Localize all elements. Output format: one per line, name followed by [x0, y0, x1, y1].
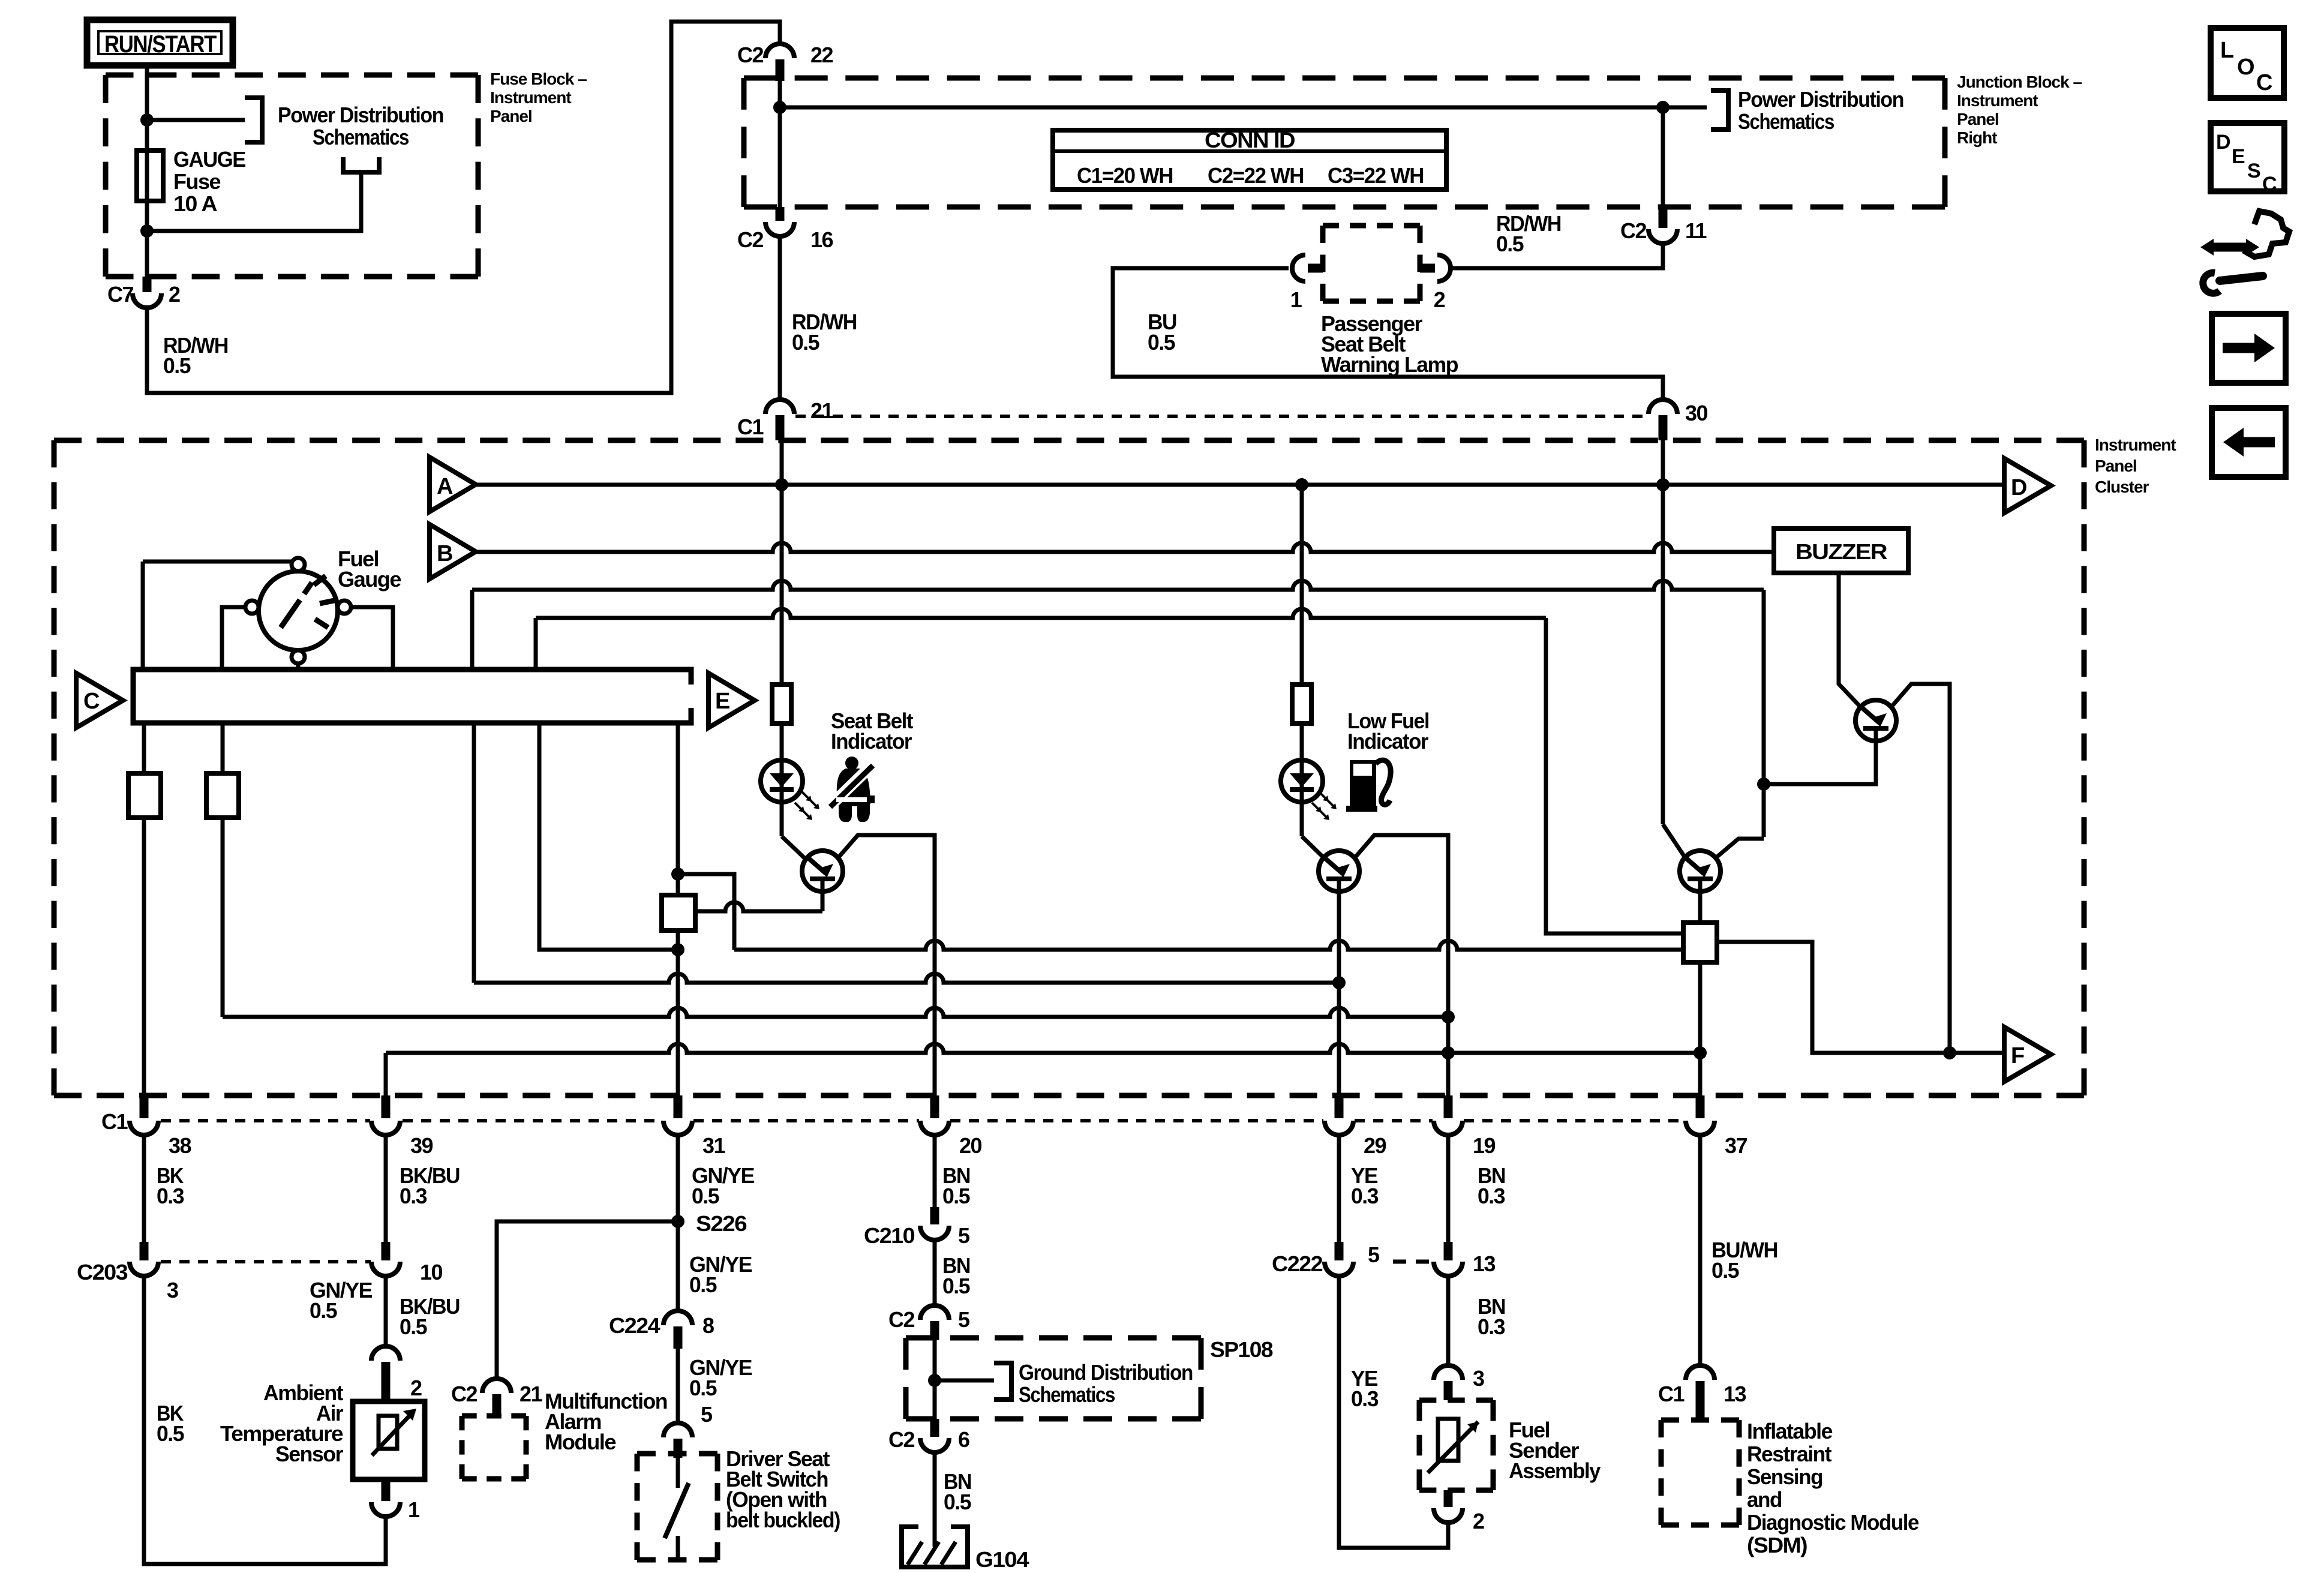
transistor seat belt driver [802, 851, 843, 891]
svg-text:Instrument: Instrument [1957, 91, 2038, 110]
lamp connector pin 2 [1420, 255, 1451, 312]
wire bus tap to D2 [539, 723, 678, 950]
svg-text:C3=22 WH: C3=22 WH [1328, 163, 1424, 188]
chime transistor collector [1716, 839, 1764, 858]
svg-text:GAUGE: GAUGE [173, 147, 245, 172]
splice SP108 dashed box [906, 1335, 1201, 1341]
svg-text:31: 31 [702, 1133, 726, 1158]
svg-text:10: 10 [420, 1260, 443, 1284]
connector C203 pin 3 [77, 1242, 178, 1302]
svg-text:29: 29 [1364, 1133, 1386, 1158]
label RD/WH 0.5 (lamp) [1496, 211, 1561, 256]
svg-text:C1: C1 [737, 415, 764, 439]
svg-text:Schematics: Schematics [1738, 109, 1834, 134]
resistor seat belt indicator [772, 685, 791, 724]
transistor collector to C1-20 [838, 835, 935, 1095]
label BN 0.5 (G104) [944, 1469, 971, 1514]
svg-text:1: 1 [408, 1497, 420, 1522]
label BN 0.3 (13) [1478, 1294, 1505, 1339]
splice box 3 [662, 895, 695, 930]
wire SDM splice to F line [1717, 942, 2004, 1053]
svg-text:21: 21 [810, 398, 834, 423]
label Ambient Air Temperature Sensor [220, 1380, 343, 1466]
svg-text:Diagnostic Module: Diagnostic Module [1747, 1510, 1918, 1535]
wire GN/YE from C1-31 to switch [676, 1135, 680, 1311]
svg-text:3: 3 [1473, 1366, 1484, 1391]
transistor chime driver [1680, 851, 1721, 891]
svg-text:C: C [83, 689, 100, 714]
wire BN 0.3 to sender pin 3 [1446, 1276, 1451, 1365]
wire BK/BU from C1-39 to connector 10 [384, 1135, 388, 1242]
splice S226 [671, 1215, 684, 1228]
svg-text:Indicator: Indicator [1347, 729, 1428, 754]
wire RD/WH 0.5 from C2-16 to C1-21 [737, 207, 833, 252]
power feed box RUN/START [87, 20, 233, 65]
junction dot low fuel emitter [1332, 976, 1346, 989]
svg-text:0.5: 0.5 [163, 353, 191, 378]
label Junction Block - Instrument Panel Right [1957, 73, 2082, 147]
wire resistor to LED (low fuel) [1300, 724, 1304, 836]
label GN/YE 0.5 (31) [692, 1163, 754, 1208]
label RD/WH 0.5 (left) [163, 333, 228, 378]
svg-text:C222: C222 [1272, 1251, 1323, 1276]
svg-text:0.5: 0.5 [692, 1184, 719, 1208]
label BN 0.5 (20) [942, 1163, 970, 1208]
wire base diagonal [1663, 824, 1685, 857]
svg-text:D: D [2011, 475, 2026, 500]
svg-text:19: 19 [1473, 1133, 1496, 1158]
svg-text:5: 5 [958, 1307, 970, 1332]
svg-text:L: L [2220, 38, 2234, 63]
label BU 0.5 [1148, 310, 1176, 355]
svg-text:0.5: 0.5 [1148, 330, 1175, 355]
svg-text:5: 5 [1368, 1242, 1380, 1267]
gauge bus bar C-E [133, 670, 691, 723]
wire 30 rail to chime transistor base [1661, 440, 1665, 824]
fuse block dashed box [106, 73, 478, 78]
svg-text:Gauge: Gauge [338, 567, 401, 592]
transistor emitter to C1-29 [1337, 891, 1341, 1095]
connector C1 pin 13 (SDM) [1658, 1365, 1746, 1420]
icon arrow right box [2212, 314, 2286, 383]
label Fuel Sender Assembly [1509, 1418, 1601, 1483]
svg-text:0.5: 0.5 [942, 1274, 970, 1298]
wire LED to transistor (seat belt) [782, 836, 807, 860]
svg-text:B: B [437, 541, 452, 566]
wire bus to internal box 1 [142, 723, 146, 773]
wire B rail to buzzer [476, 543, 1774, 552]
label GAUGE Fuse 10 A [173, 147, 245, 216]
svg-text:O: O [2237, 55, 2254, 80]
label BN 0.5 (C210) [942, 1253, 970, 1298]
svg-text:C1=20 WH: C1=20 WH [1077, 163, 1173, 188]
label Low Fuel Indicator [1347, 709, 1429, 754]
lamp connector pin 1 [1290, 255, 1323, 312]
dotted line C203 [161, 1260, 371, 1263]
svg-text:Fuse Block –: Fuse Block – [490, 70, 587, 88]
svg-text:Cluster: Cluster [2095, 478, 2149, 496]
svg-text:(SDM): (SDM) [1747, 1533, 1807, 1557]
svg-text:Panel: Panel [2095, 457, 2137, 475]
svg-text:Assembly: Assembly [1509, 1458, 1601, 1483]
connector C203 pin 10 [371, 1242, 443, 1284]
buzzer wire to transistor [1839, 573, 1860, 707]
svg-text:Power Distribution: Power Distribution [278, 103, 443, 127]
label YE 0.3 (sender) [1351, 1366, 1378, 1411]
svg-text:Panel: Panel [490, 107, 532, 125]
sensor connector pin 2 [371, 1346, 422, 1401]
label BU/WH 0.5 (37) [1712, 1238, 1777, 1283]
svg-text:3: 3 [167, 1278, 178, 1302]
svg-text:Ground Distribution: Ground Distribution [1019, 1360, 1193, 1385]
wire bus tap to low fuel emitter [472, 723, 476, 983]
junction dot F line [1943, 1046, 1956, 1059]
svg-text:D: D [2216, 131, 2230, 154]
wire BN from C1-19 to connector 13 [1446, 1135, 1451, 1242]
svg-text:0.5: 0.5 [792, 330, 819, 355]
svg-text:2: 2 [1473, 1509, 1484, 1533]
svg-text:C2: C2 [888, 1427, 914, 1452]
resistor low fuel indicator [1292, 685, 1311, 724]
connector C1 pin 39 [371, 1095, 433, 1158]
passenger seat belt warning lamp box [1323, 223, 1420, 229]
connector C2 pin 6 [888, 1419, 969, 1452]
ground G104 [902, 1527, 1029, 1572]
svg-text:C1: C1 [101, 1109, 128, 1134]
connector C224 pin 8 [609, 1311, 714, 1349]
svg-text:S: S [2247, 160, 2260, 182]
junction dot D2 [671, 943, 684, 956]
seat belt indicator wire from C1-21 [780, 440, 784, 685]
svg-text:belt buckled): belt buckled) [726, 1508, 840, 1532]
SDM splice box [1683, 923, 1717, 962]
label Driver Seat Belt Switch [726, 1446, 840, 1532]
connector C2 pin 21 [451, 1379, 543, 1416]
signal line to SDM splice box [734, 941, 1683, 950]
svg-text:Sensor: Sensor [275, 1442, 343, 1466]
svg-text:6: 6 [958, 1427, 969, 1452]
svg-text:0.3: 0.3 [157, 1184, 184, 1208]
svg-text:C: C [2262, 173, 2277, 196]
internal element box 2 [206, 773, 239, 818]
label BK 0.3 [157, 1163, 184, 1208]
triangle connector F [2004, 1027, 2051, 1082]
wire BK 0.5 sensor to C203 [144, 1276, 386, 1564]
wire resistor to LED [780, 724, 784, 836]
connector C222 pin 5 [1272, 1242, 1380, 1276]
svg-text:38: 38 [169, 1133, 191, 1158]
triangle connector E [708, 673, 755, 728]
power distribution schematics bracket (fuse block) [245, 98, 262, 142]
label BK/BU 0.5 [400, 1294, 460, 1339]
dashed line C222 [1393, 1260, 1433, 1264]
svg-text:11: 11 [1685, 218, 1707, 243]
svg-text:39: 39 [410, 1133, 433, 1158]
wire BU 0.5 lamp to connector 30 [1113, 268, 1663, 400]
junction dot on fuel line at 37 [1694, 1046, 1707, 1059]
transistor emitter to splice box [821, 891, 825, 911]
svg-text:S226: S226 [696, 1211, 747, 1236]
fuel gauge [245, 558, 351, 664]
multifunction alarm module box [462, 1413, 526, 1419]
icon arrow left box [2212, 408, 2286, 477]
svg-text:0.5: 0.5 [1712, 1258, 1739, 1283]
svg-text:13: 13 [1724, 1382, 1746, 1406]
switch symbol (driver seat belt) [665, 1458, 689, 1560]
thermistor symbol (ambient sensor) [372, 1409, 416, 1455]
svg-text:0.5: 0.5 [1496, 232, 1524, 256]
wire E-bus tap to buzzer driver collector [472, 581, 1764, 590]
svg-text:5: 5 [701, 1402, 713, 1427]
connector C210 pin 5 [864, 1207, 970, 1248]
svg-text:C2: C2 [737, 227, 763, 252]
power distribution schematics bracket (junction block) [1711, 91, 1728, 130]
buzzer BUZZER [1774, 529, 1908, 573]
svg-text:2: 2 [410, 1376, 422, 1400]
svg-text:Instrument: Instrument [2095, 436, 2176, 454]
cluster connector dotted line C1 bottom [101, 1109, 1685, 1134]
wire C2-22 to C2-16 inside junction block [778, 81, 782, 207]
LED low fuel indicator [1281, 760, 1323, 802]
svg-text:Module: Module [545, 1430, 615, 1454]
label Seat Belt Indicator [831, 709, 913, 754]
svg-text:Schematics: Schematics [1019, 1382, 1115, 1407]
cluster connector dotted line C1-21 to 30 [795, 415, 1647, 418]
buzzer transistor emitter [1764, 741, 1876, 784]
svg-text:5: 5 [958, 1223, 970, 1248]
connector C1 pin 20 [920, 1095, 982, 1158]
svg-text:13: 13 [1473, 1251, 1496, 1276]
svg-text:Schematics: Schematics [313, 125, 409, 149]
label GN/YE 0.5 (C224) [689, 1252, 752, 1297]
svg-text:C7: C7 [107, 282, 133, 307]
svg-text:Panel: Panel [1957, 110, 1999, 128]
svg-text:C2: C2 [1620, 218, 1646, 243]
wire LED to transistor (low fuel) [1302, 836, 1325, 858]
connector C1 pin 38 [130, 1095, 191, 1158]
svg-text:0.5: 0.5 [157, 1421, 184, 1446]
triangle connector A [430, 457, 476, 512]
svg-text:Inflatable: Inflatable [1747, 1419, 1832, 1443]
connector C2 pin 5 [888, 1305, 970, 1340]
junction dot fuel signal [1442, 1046, 1455, 1059]
svg-text:E: E [715, 689, 729, 714]
junction dot buzzer emitter [1757, 778, 1770, 791]
wire to power distribution bracket [147, 118, 245, 122]
svg-text:G104: G104 [975, 1547, 1029, 1572]
svg-text:16: 16 [810, 227, 833, 252]
svg-text:and: and [1747, 1487, 1782, 1512]
svg-text:Sensing: Sensing [1747, 1464, 1822, 1489]
svg-text:0.3: 0.3 [1351, 1386, 1378, 1411]
fuel data line to C1-39 and F [386, 1044, 1700, 1053]
label Instrument Panel Cluster [2095, 436, 2176, 496]
label GN/YE 0.5 (switch) [689, 1355, 752, 1400]
svg-text:A: A [437, 474, 453, 499]
icon DESC box [2211, 123, 2284, 196]
connector C7 pin 2 [107, 277, 180, 308]
svg-text:C2: C2 [737, 43, 763, 67]
svg-text:C224: C224 [609, 1313, 660, 1338]
svg-text:F: F [2011, 1043, 2024, 1068]
junction dot on feed rail (right) [1656, 101, 1670, 114]
svg-text:C: C [2256, 70, 2272, 95]
junction dot sender feed [1442, 1010, 1455, 1023]
label BN 0.3 (19) [1478, 1163, 1505, 1208]
triangle connector C [76, 673, 123, 728]
svg-text:10 A: 10 A [173, 191, 218, 216]
svg-text:Right: Right [1957, 128, 1997, 147]
transistor collector to C1-19 [1355, 835, 1448, 1095]
inflatable restraint SDM box [1661, 1418, 1739, 1423]
svg-text:Warning Lamp: Warning Lamp [1321, 352, 1458, 377]
wire BK/BU 0.5 to sensor [384, 1276, 388, 1346]
svg-text:C210: C210 [864, 1223, 915, 1248]
wire RD/WH 0.5 from C7 to junction block [147, 22, 780, 393]
triangle connector D [2004, 458, 2051, 513]
sender connector pin 2 [1434, 1490, 1484, 1533]
icon seat belt person [830, 757, 875, 822]
ground distribution schematics bracket [994, 1363, 1011, 1400]
label BK 0.5 [157, 1401, 184, 1446]
connector C1 pin 21 [737, 398, 834, 440]
sensor connector pin 1 [371, 1479, 420, 1522]
svg-text:0.5: 0.5 [400, 1314, 427, 1339]
connector C1 pin 37 [1686, 1095, 1747, 1158]
wire D1 to signal line [678, 874, 734, 950]
junction dots on A rail [775, 478, 788, 491]
LED arrows seat belt [802, 792, 817, 807]
svg-text:Fuse: Fuse [173, 169, 220, 194]
svg-text:21: 21 [520, 1382, 543, 1406]
chime transistor emitter to splice [1698, 891, 1703, 923]
fuel sender assembly box [1419, 1398, 1493, 1403]
fork symbol to other schematics [343, 157, 379, 172]
junction dot on feed rail (left) [773, 101, 786, 114]
svg-text:2: 2 [1434, 287, 1445, 312]
wire S226 to alarm module [497, 1221, 678, 1379]
icon LOC box [2211, 28, 2284, 98]
wire BN from C1-20 to C210 [933, 1135, 937, 1207]
svg-text:22: 22 [810, 43, 833, 67]
svg-text:0.3: 0.3 [1478, 1184, 1505, 1208]
wire RD/WH 0.5 from C2-11 to warning lamp [1452, 244, 1663, 268]
connector C2 pin 22 [737, 43, 833, 81]
wire to ground distribution bracket [935, 1379, 994, 1383]
label Passenger Seat Belt Warning Lamp [1321, 311, 1458, 377]
connector 30 [1649, 400, 1708, 440]
svg-text:Instrument: Instrument [490, 88, 571, 107]
svg-text:0.5: 0.5 [944, 1490, 971, 1514]
svg-text:37: 37 [1725, 1133, 1747, 1158]
wire splice to C1-37 [1698, 962, 1703, 1095]
label Inflatable Restraint Sensing and Diagnostic Module (SDM) [1747, 1419, 1918, 1557]
junction dot SP108 [928, 1374, 941, 1387]
svg-text:Junction Block –: Junction Block – [1957, 73, 2082, 91]
svg-text:0.5: 0.5 [310, 1298, 337, 1323]
wire RUN/START down through fuse block [145, 65, 149, 277]
connector C1 pin 29 [1325, 1095, 1386, 1158]
wire box1 to C1-38 [142, 818, 146, 1095]
svg-text:SP108: SP108 [1210, 1337, 1272, 1362]
wire E-bus tap to SDM splice [536, 609, 1546, 618]
wire through SP108 [933, 1340, 937, 1419]
junction dot fuse input [140, 113, 154, 127]
wire box2 down and right (sender feed) [221, 818, 225, 1017]
low fuel indicator wire from A rail [1300, 485, 1304, 685]
icon service arrow and wrench [2200, 211, 2289, 293]
triangle connector B [430, 524, 476, 579]
label Fuse Block - Instrument Panel [490, 70, 587, 125]
svg-text:0.5: 0.5 [689, 1376, 717, 1400]
svg-text:C2=22 WH: C2=22 WH [1208, 163, 1304, 188]
svg-text:20: 20 [959, 1133, 982, 1158]
driver seat belt switch box [637, 1451, 717, 1457]
wire splice to C1-31 [676, 930, 680, 1095]
wire BN to C2-5 [933, 1240, 937, 1305]
wire BK from C1-38 to C203 [142, 1135, 146, 1242]
feed rail wire inside junction block [780, 106, 1707, 110]
ambient air temperature sensor box [353, 1401, 425, 1479]
wire GN/YE to connector 5 [676, 1349, 680, 1423]
junction dot D1 [671, 867, 684, 881]
wire bus to internal box 2 [221, 723, 225, 773]
svg-text:C2: C2 [888, 1307, 914, 1332]
buzzer transistor collector to F [1891, 684, 1950, 1053]
label Power Distribution Schematics (fuse block) [278, 103, 443, 149]
wire YE from C1-29 to C222 [1337, 1135, 1341, 1242]
wire A rail [476, 483, 2004, 487]
label RD/WH 0.5 (middle) [792, 310, 857, 355]
label YE 0.3 (29) [1351, 1163, 1378, 1208]
LED seat belt indicator [761, 760, 803, 802]
svg-text:C2: C2 [451, 1382, 477, 1406]
svg-text:Indicator: Indicator [831, 729, 912, 754]
label BK/BU 0.3 [400, 1163, 460, 1208]
svg-text:2: 2 [169, 282, 180, 307]
wire bus to splice box [676, 723, 680, 895]
svg-text:0.3: 0.3 [400, 1184, 427, 1208]
svg-text:E: E [2232, 145, 2245, 168]
svg-text:RUN/START: RUN/START [104, 31, 217, 58]
label Power Distribution Schematics (junction block) [1738, 87, 1903, 134]
svg-text:0.5: 0.5 [689, 1272, 717, 1297]
wire to fork symbol [147, 172, 361, 231]
transistor buzzer driver [1855, 700, 1896, 741]
wire BN to ground [933, 1452, 937, 1547]
transistor low fuel driver [1319, 851, 1359, 891]
label Ground Distribution Schematics [1019, 1360, 1193, 1407]
svg-text:1: 1 [1290, 287, 1302, 312]
wire BU/WH from C1-37 to SDM [1698, 1135, 1703, 1365]
sender connector pin 3 [1434, 1365, 1484, 1400]
connector C2 pin 11 [1620, 107, 1707, 244]
svg-text:Power Distribution: Power Distribution [1738, 87, 1903, 112]
svg-text:0.3: 0.3 [1351, 1184, 1378, 1208]
connector C222 pin 13 [1434, 1242, 1496, 1276]
label GN/YE 0.5 (alarm) [310, 1278, 372, 1323]
svg-text:0.3: 0.3 [1478, 1314, 1505, 1339]
internal element box 1 [128, 773, 161, 818]
label Fuel Gauge [338, 547, 401, 592]
CONN ID table [1053, 128, 1446, 190]
svg-text:30: 30 [1685, 401, 1708, 425]
label Multifunction Alarm Module [545, 1389, 667, 1454]
sender resistor symbol [1428, 1419, 1478, 1473]
junction dot fuse output [140, 224, 154, 238]
fuel gauge wires to bus [143, 560, 292, 564]
junction block dashed box [744, 76, 1945, 81]
